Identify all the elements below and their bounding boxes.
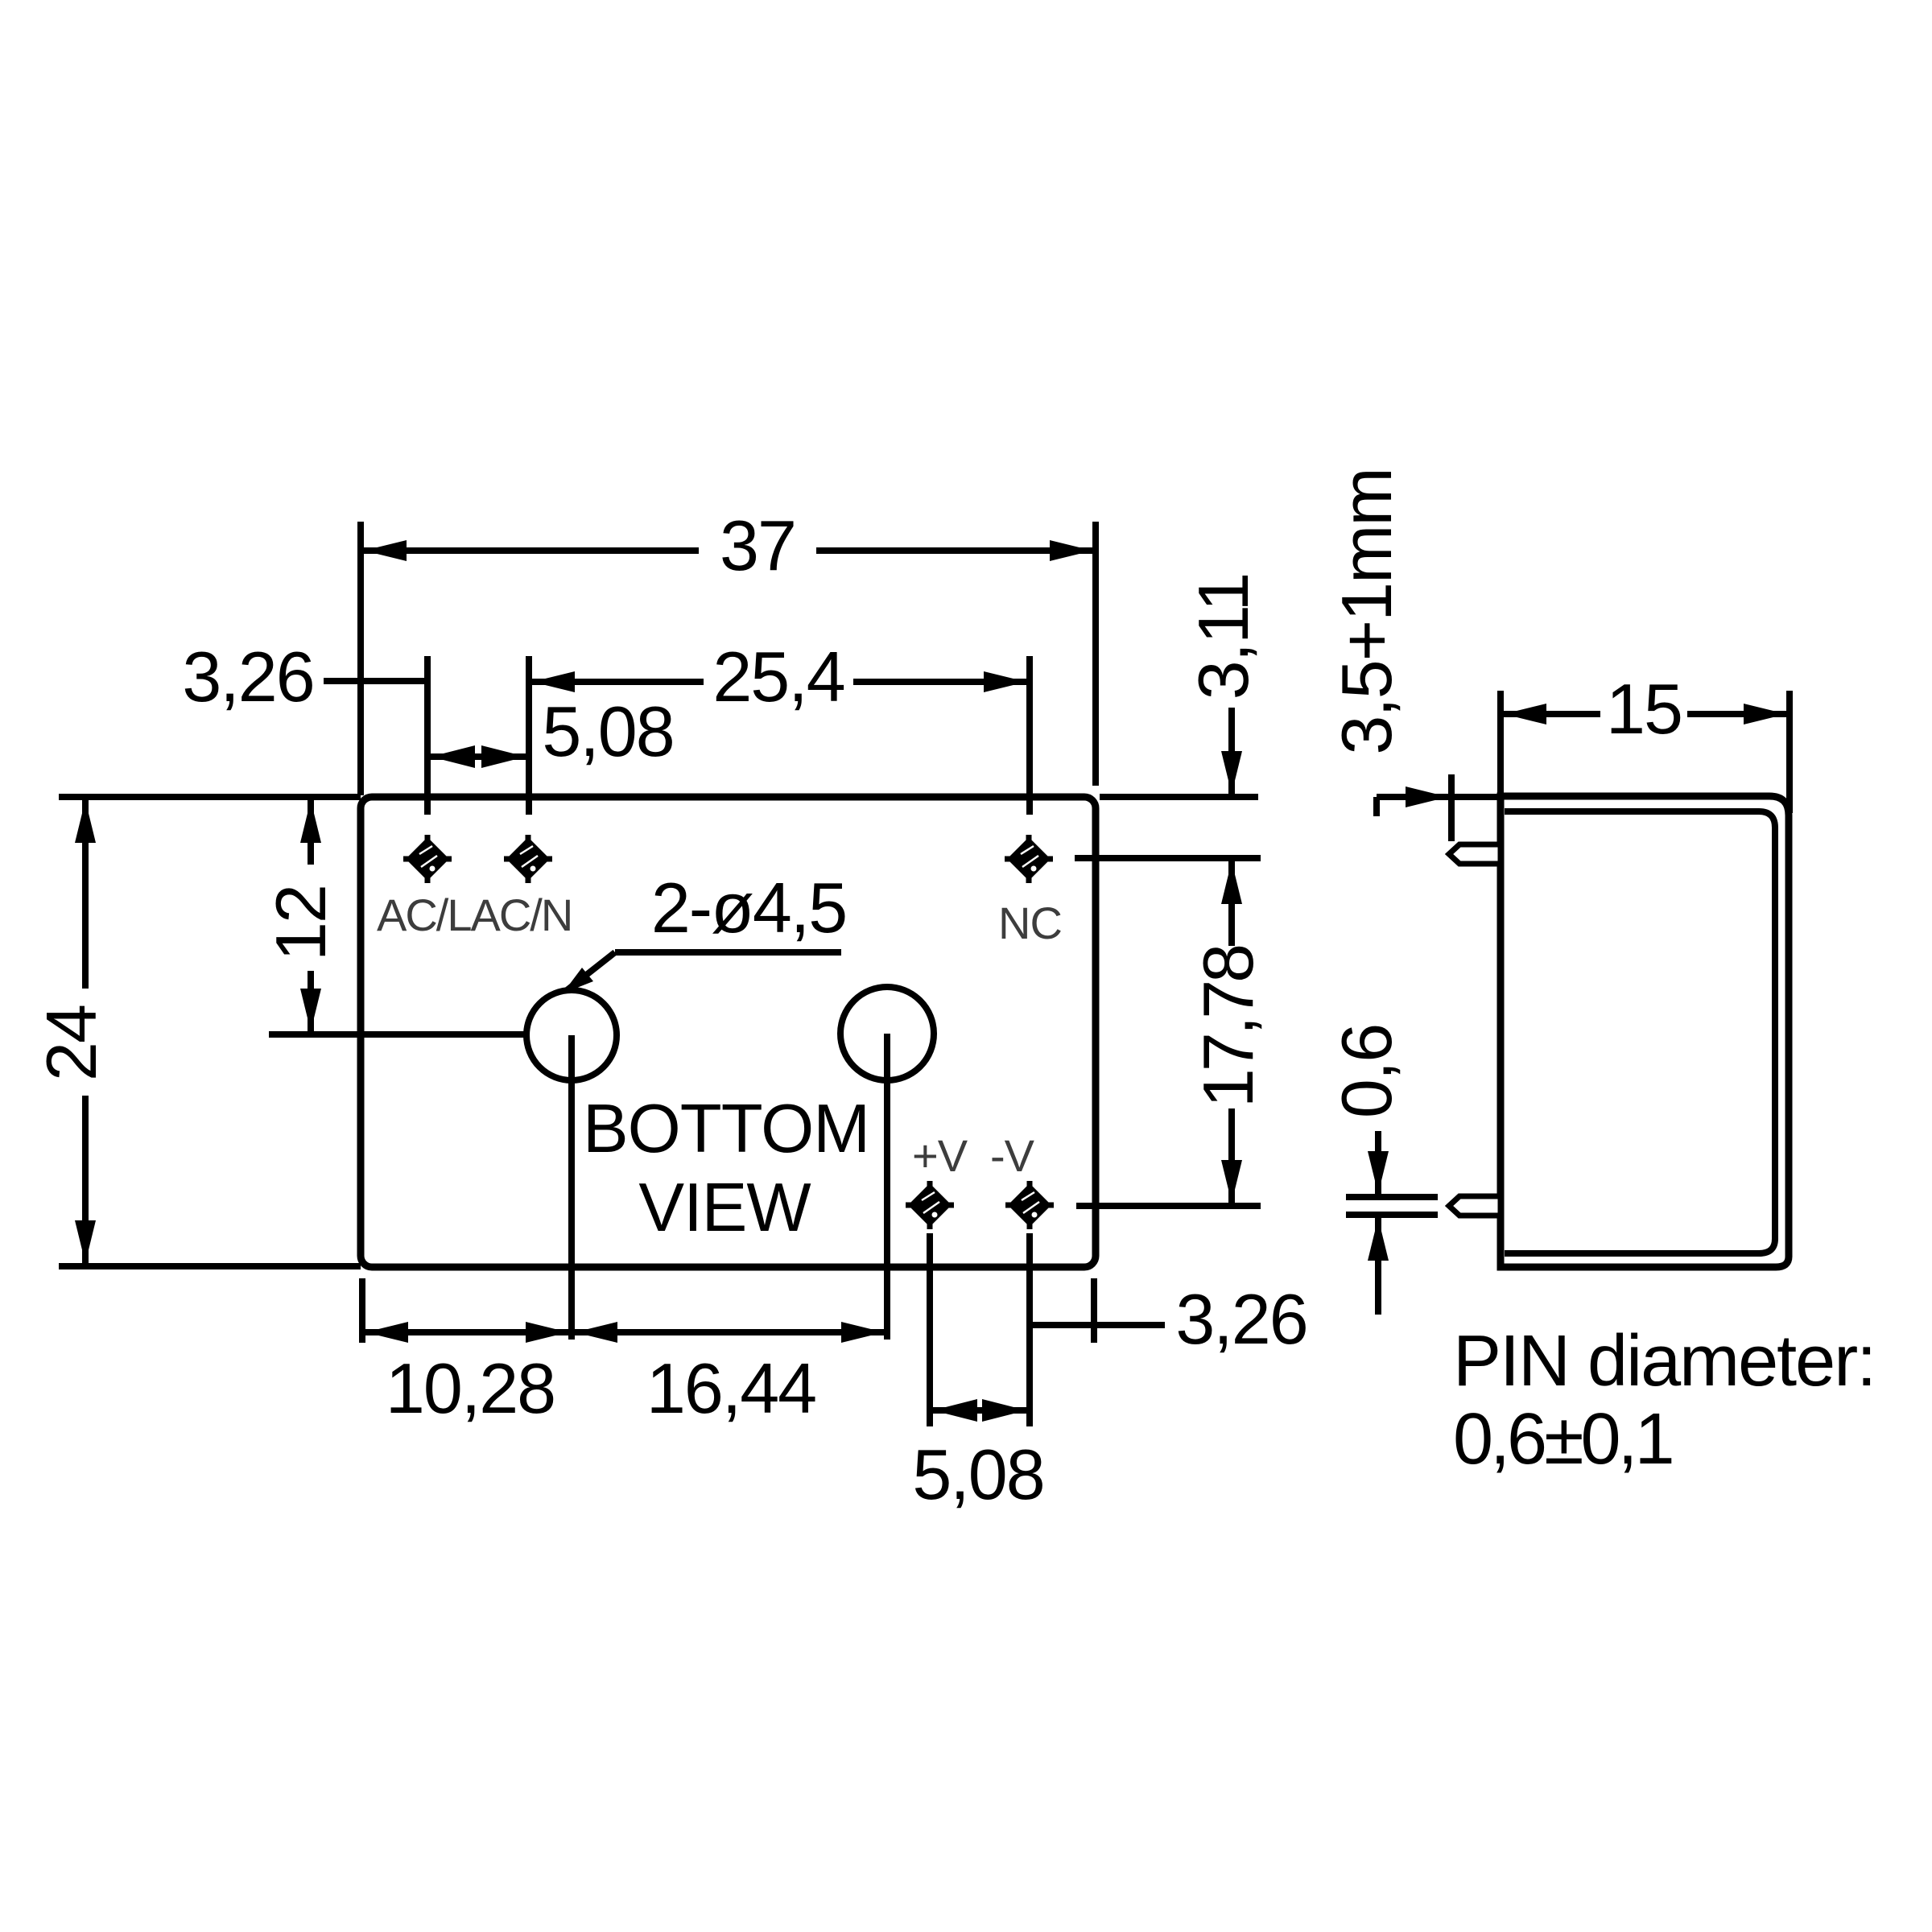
wire: top-left extension line (37) bbox=[357, 522, 364, 795]
dimension 37 bbox=[361, 506, 1096, 585]
wire: hole2 centreline down bbox=[884, 1034, 890, 1340]
svg-text:+V: +V bbox=[912, 1130, 968, 1181]
svg-text:5,08: 5,08 bbox=[912, 1435, 1043, 1514]
svg-text:3,5+1mm: 3,5+1mm bbox=[1327, 469, 1406, 754]
svg-text:25,4: 25,4 bbox=[712, 637, 844, 716]
wire: left extension tick bottom (24) bbox=[59, 1263, 361, 1269]
svg-text:16,44: 16,44 bbox=[646, 1348, 815, 1428]
mounting hole 2 (2-o4,5) bbox=[840, 987, 934, 1080]
pin NC bbox=[1005, 835, 1053, 883]
side view top pin bbox=[1449, 844, 1501, 864]
wire: extension line pin AC/N (25,4 / 5,08) bbox=[526, 656, 532, 815]
dimension 3,11 (top edge to NC row) bbox=[1100, 574, 1263, 797]
wire: -V pin row line to right bbox=[1076, 1203, 1261, 1209]
dimension 10,28 / 16,44 bbox=[362, 1322, 887, 1428]
svg-text:PIN diameter:: PIN diameter: bbox=[1453, 1321, 1875, 1402]
dimension 0,6 (pin thickness) bbox=[1327, 1025, 1438, 1315]
side view case inner lip line bbox=[1505, 811, 1775, 1253]
mounting hole 1 (2-o4,5) bbox=[526, 990, 617, 1080]
wire: extension below right edge (3,26) bbox=[1091, 1278, 1097, 1343]
svg-text:5,08: 5,08 bbox=[542, 691, 673, 771]
dimension 24 bbox=[31, 799, 111, 1265]
pin AC/N bbox=[504, 835, 552, 883]
wire: extension line pin NC (25,4) bbox=[1026, 656, 1033, 815]
label 2-o4,5 with leader bbox=[563, 868, 846, 993]
svg-text:BOTTOM: BOTTOM bbox=[583, 1091, 869, 1167]
svg-text:2-ø4,5: 2-ø4,5 bbox=[651, 868, 846, 947]
svg-text:3,11: 3,11 bbox=[1183, 574, 1263, 700]
dimension 5,08 (pin pitch +V/-V) bbox=[912, 1399, 1043, 1514]
svg-text:15: 15 bbox=[1606, 669, 1682, 749]
svg-text:AC/LAC/N: AC/LAC/N bbox=[377, 890, 572, 940]
svg-text:VIEW: VIEW bbox=[638, 1170, 811, 1246]
side view case outline (outer) bbox=[1501, 796, 1789, 1267]
wire: left extension tick top (24) bbox=[59, 794, 361, 800]
svg-text:0,6: 0,6 bbox=[1327, 1025, 1406, 1118]
dimension 17,78 (NC row to -V row) bbox=[1188, 861, 1268, 1203]
svg-text:37: 37 bbox=[720, 506, 795, 585]
dimension 25,4 bbox=[529, 637, 1030, 716]
pin AC/L bbox=[403, 835, 452, 883]
svg-text:12: 12 bbox=[261, 885, 341, 961]
svg-text:0,6±0,1: 0,6±0,1 bbox=[1453, 1399, 1672, 1480]
svg-text:-V: -V bbox=[990, 1130, 1035, 1181]
dimension 5,08 (pin pitch AC/L-AC/N) bbox=[427, 691, 674, 771]
svg-text:10,28: 10,28 bbox=[386, 1348, 555, 1428]
svg-text:24: 24 bbox=[31, 1005, 111, 1081]
wire: NC pin row line to right bbox=[1075, 855, 1261, 861]
wire: extension lines (15) bbox=[1497, 691, 1504, 809]
pin +V bbox=[906, 1181, 954, 1229]
wire: hole1 centreline down bbox=[568, 1035, 575, 1340]
svg-text:3,26: 3,26 bbox=[1175, 1279, 1307, 1359]
svg-text:17,78: 17,78 bbox=[1188, 946, 1268, 1108]
svg-text:NC: NC bbox=[998, 898, 1062, 948]
wire: extension line pin AC/L (5,08 / 3,26) bbox=[424, 656, 431, 815]
pin -V bbox=[1005, 1181, 1054, 1229]
module body outline (bottom view) bbox=[361, 797, 1096, 1267]
dimension 3,5+1mm (pin length) bbox=[1327, 469, 1497, 841]
dimension 15 bbox=[1501, 669, 1790, 749]
wire: extension below -V pin bbox=[1026, 1233, 1033, 1426]
wire: extension below +V pin bbox=[927, 1233, 933, 1426]
dimension 3,26 (pin -V to right edge) bbox=[1032, 1279, 1307, 1359]
svg-text:3,26: 3,26 bbox=[182, 637, 313, 716]
wire: bottom extension line at left edge (10,28) bbox=[359, 1278, 365, 1343]
dimension 3,26 (left edge to pin AC/L) bbox=[182, 637, 427, 716]
dimension 12 (top edge to hole centre) bbox=[261, 799, 572, 1034]
side view bottom pin bbox=[1449, 1196, 1501, 1216]
wire: top-right extension line (37) bbox=[1092, 522, 1099, 786]
